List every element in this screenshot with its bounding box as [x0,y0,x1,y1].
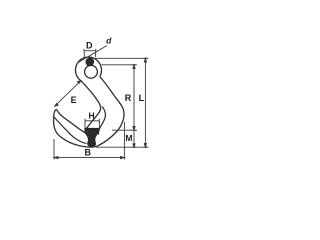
hatched bar cross-section circle d [86,58,94,66]
dimension line M [132,130,136,147]
eye outer arc [75,57,101,80]
top extension line for R [102,64,138,66]
hook outer silhouette [54,77,124,148]
svg-text:D: D [86,41,93,51]
dimension D extension lines [83,52,85,59]
B extension lines [53,139,55,160]
dimension H [85,119,99,128]
bottom extension line [96,146,148,148]
svg-text:L: L [139,93,145,103]
svg-text:B: B [85,147,92,157]
svg-text:d: d [106,36,112,46]
section blob (hatched cross-section at seat) [85,128,99,146]
eye inner circle [85,65,98,78]
body inner right edge [98,107,105,135]
top extension line for L [94,57,148,59]
svg-text:E: E [71,95,77,105]
svg-text:R: R [125,93,132,103]
dimension line L [143,58,147,147]
dimension D line [84,49,96,59]
leader line d [79,46,108,63]
svg-text:H: H [89,111,95,121]
body left edge [81,81,101,129]
bowl middle contour left [54,117,86,143]
dimension line R [132,65,136,130]
mid extension line M top [112,129,137,131]
svg-text:M: M [125,133,132,143]
dimension E diagonal line [55,81,81,107]
H extension lines [84,121,86,128]
dimension B [54,122,124,160]
